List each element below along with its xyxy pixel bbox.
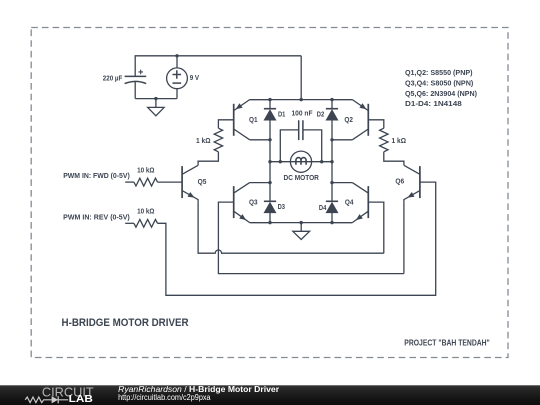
label D2 xyxy=(317,112,324,119)
wire right output column xyxy=(331,140,333,183)
svg-text:100 nF: 100 nF xyxy=(292,110,314,117)
transistor Q4 xyxy=(352,183,368,223)
wire Q6 emitter xyxy=(403,203,405,274)
svg-text:Q3: Q3 xyxy=(249,199,258,206)
label R1 value xyxy=(137,167,155,174)
note transistor types xyxy=(405,70,477,108)
wire motor row xyxy=(270,161,332,163)
wire cap branch xyxy=(280,130,321,162)
node top rail supply xyxy=(300,98,303,101)
wire Q4 base xyxy=(368,202,384,253)
label V1 value xyxy=(190,75,200,82)
svg-text:10 kΩ: 10 kΩ xyxy=(137,209,155,216)
transistor Q1 xyxy=(234,100,250,140)
CircuitLab logo resistor-diode xyxy=(25,396,68,403)
wire D2 bottom lead xyxy=(331,120,333,140)
node V+ junction xyxy=(175,54,178,57)
node bottom rail gnd xyxy=(300,221,303,224)
diode D3 xyxy=(264,201,277,213)
wire Q3 collector xyxy=(250,182,270,184)
wire Q4 collector xyxy=(332,182,352,184)
svg-text:http://circuitlab.com/c2p9pxa: http://circuitlab.com/c2p9pxa xyxy=(118,393,211,402)
CircuitLab logo CIRCUIT xyxy=(42,385,94,400)
diode D2 xyxy=(326,109,339,121)
svg-text:DC MOTOR: DC MOTOR xyxy=(284,175,319,182)
svg-text:D1-D4: 1N4148: D1-D4: 1N4148 xyxy=(405,101,462,108)
wire Q2 collector xyxy=(332,139,352,141)
svg-text:PWM IN: FWD (0-5V): PWM IN: FWD (0-5V) xyxy=(63,173,130,180)
ground GND1 xyxy=(148,99,164,116)
capacitor C1 220 µF xyxy=(125,70,147,99)
footer url xyxy=(118,393,211,402)
resistor R2 10 kΩ xyxy=(134,219,158,227)
svg-text:1 kΩ: 1 kΩ xyxy=(196,138,211,145)
label R4 value xyxy=(392,138,407,145)
svg-text:D2: D2 xyxy=(317,112,324,119)
label D1 xyxy=(278,112,285,119)
svg-text:D3: D3 xyxy=(278,204,285,211)
svg-text:Q1,Q2: S8550 (PNP): Q1,Q2: S8550 (PNP) xyxy=(405,70,473,77)
node motor right xyxy=(330,160,333,163)
terminal PWM IN REV xyxy=(63,215,130,222)
label C1 value xyxy=(103,76,123,83)
transistor Q5 xyxy=(182,165,198,202)
wire Q3 base xyxy=(218,202,404,274)
wire R4 to Q6 collector xyxy=(384,152,404,166)
wire D1 top lead xyxy=(269,100,271,109)
label Q4 xyxy=(345,200,354,207)
wire Q1 base xyxy=(218,120,233,128)
wire R3 to Q5 collector xyxy=(198,152,218,166)
wire D3 bottom lead xyxy=(269,213,271,223)
node bottom rail D3 xyxy=(268,221,271,224)
wire Q5 base xyxy=(157,181,182,183)
wire D4 top lead xyxy=(331,183,333,202)
label Q5 xyxy=(198,179,207,186)
wire D2 top lead xyxy=(331,100,333,109)
label Q6 xyxy=(395,179,404,186)
node Q4 collector xyxy=(330,181,333,184)
svg-text:PROJECT "BAH TENDAH": PROJECT "BAH TENDAH" xyxy=(404,337,490,347)
resistor R4 1 kΩ xyxy=(380,128,388,152)
label C2 value xyxy=(292,110,314,117)
node cap right xyxy=(320,160,323,163)
label R3 value xyxy=(196,138,211,145)
footer author/title xyxy=(118,385,279,394)
svg-text:D4: D4 xyxy=(319,205,326,212)
svg-text:9 V: 9 V xyxy=(190,75,200,82)
wire REV to Q6 base xyxy=(157,182,435,295)
svg-text:Q1: Q1 xyxy=(249,117,258,124)
node motor left xyxy=(268,160,271,163)
svg-text:1 kΩ: 1 kΩ xyxy=(392,138,407,145)
label Q3 xyxy=(249,199,258,206)
label R2 value xyxy=(137,209,155,216)
motor M1 xyxy=(290,151,311,172)
node Q2 collector xyxy=(330,138,333,141)
svg-text:LAB: LAB xyxy=(69,394,93,405)
wire Q4 emitter xyxy=(332,222,352,224)
svg-text:Q2: Q2 xyxy=(344,117,353,124)
transistor Q6 xyxy=(404,165,420,202)
svg-text:H-BRIDGE MOTOR DRIVER: H-BRIDGE MOTOR DRIVER xyxy=(62,317,189,329)
diode D4 xyxy=(326,201,339,213)
label D3 xyxy=(278,204,285,211)
svg-text:Q4: Q4 xyxy=(345,200,354,207)
svg-text:Q5: Q5 xyxy=(198,179,207,186)
wire Q2 emitter xyxy=(332,99,352,101)
node Q3 collector xyxy=(268,181,271,184)
wire V- bottom xyxy=(135,98,177,100)
label D4 xyxy=(319,205,326,212)
wire supply drop xyxy=(300,56,302,100)
note project xyxy=(404,337,490,347)
svg-text:220 µF: 220 µF xyxy=(103,76,123,83)
node bottom rail D4 xyxy=(330,221,333,224)
footer bar xyxy=(0,385,540,405)
wire REV stub xyxy=(125,222,134,224)
wire bottom rail xyxy=(250,222,353,224)
label Q1 xyxy=(249,117,258,124)
wire D4 bottom lead xyxy=(331,213,333,223)
svg-text:PWM IN: REV (0-5V): PWM IN: REV (0-5V) xyxy=(63,215,130,222)
wire FWD stub xyxy=(125,181,134,183)
node top rail D1 xyxy=(268,98,271,101)
resistor R1 10 kΩ xyxy=(134,178,158,186)
wire top rail xyxy=(250,99,353,101)
wire V+ top xyxy=(135,56,301,77)
node cap left xyxy=(279,160,282,163)
note title xyxy=(62,317,189,329)
node Q1 collector xyxy=(268,138,271,141)
wire D3 top lead xyxy=(269,183,271,202)
node V- junction xyxy=(154,97,157,100)
label Q2 xyxy=(344,117,353,124)
wire Q2 base xyxy=(368,120,384,128)
wire Q3 emitter xyxy=(250,222,270,224)
svg-text:D1: D1 xyxy=(278,112,285,119)
label M1 DC MOTOR xyxy=(284,175,319,182)
wire left output column xyxy=(269,140,271,183)
wire Q5 emitter to Q4 base xyxy=(198,203,384,254)
node top rail D2 xyxy=(330,98,333,101)
voltage source V1 9 V xyxy=(167,56,188,99)
wire D1 bottom lead xyxy=(269,120,271,140)
svg-text:Q3,Q4: S8050 (NPN): Q3,Q4: S8050 (NPN) xyxy=(405,80,473,87)
border frame (dashed) xyxy=(31,28,508,358)
svg-text:Q5,Q6: 2N3904 (NPN): Q5,Q6: 2N3904 (NPN) xyxy=(405,91,477,98)
svg-text:10 kΩ: 10 kΩ xyxy=(137,167,155,174)
wire Q1 emitter xyxy=(250,99,270,101)
capacitor C2 100 nF xyxy=(299,120,303,140)
diode D1 xyxy=(264,109,277,121)
transistor Q2 xyxy=(352,100,368,140)
svg-text:Q6: Q6 xyxy=(395,179,404,186)
resistor R3 1 kΩ xyxy=(214,128,222,152)
transistor Q3 xyxy=(234,183,250,223)
terminal PWM IN FWD xyxy=(63,173,130,180)
wire Q1 collector xyxy=(250,139,270,141)
ground GND2 xyxy=(293,223,310,240)
CircuitLab logo LAB xyxy=(69,394,93,405)
